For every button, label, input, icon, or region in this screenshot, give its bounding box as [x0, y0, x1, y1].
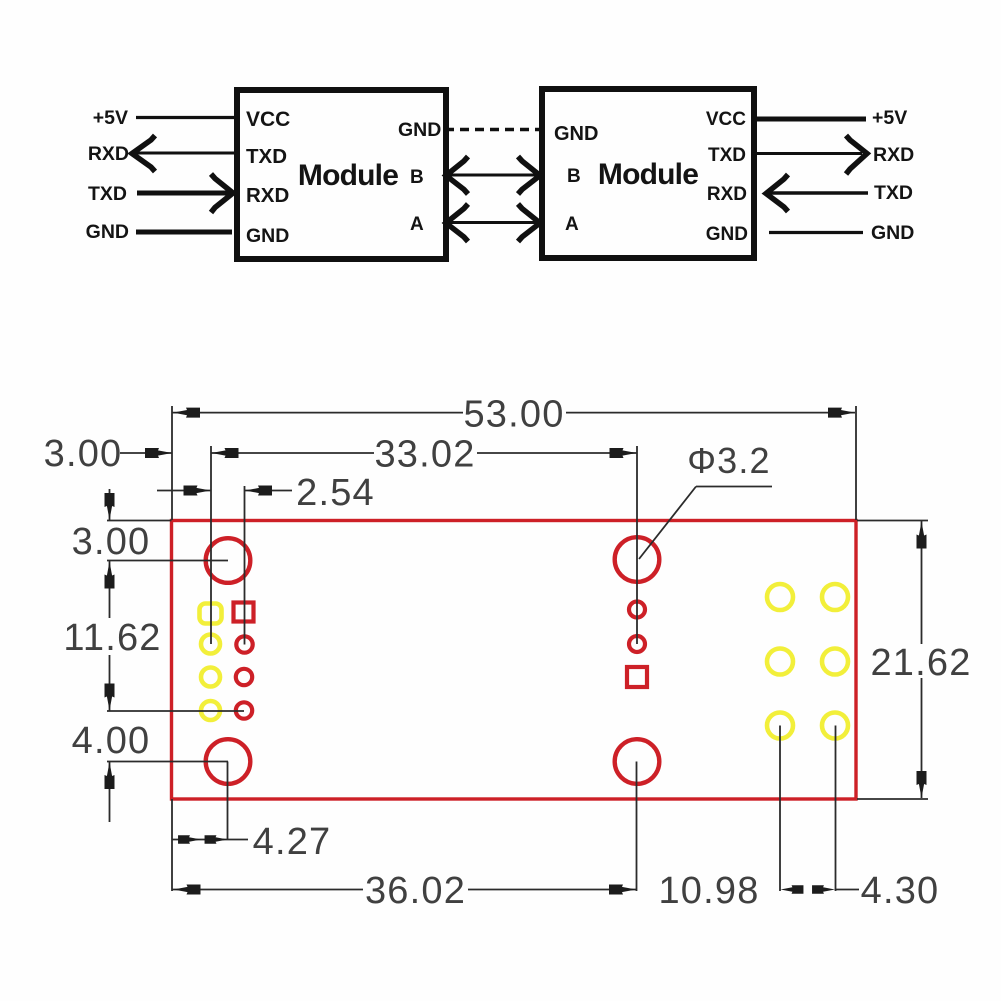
dimension texts — [44, 394, 972, 913]
svg-text:VCC: VCC — [246, 108, 290, 131]
33.02 arrows — [212, 448, 239, 458]
4.00 arrow (up) — [105, 762, 115, 789]
svg-text:GND: GND — [398, 119, 441, 141]
svg-text:GND: GND — [86, 221, 129, 243]
svg-text:36.02: 36.02 — [365, 870, 466, 912]
21.62 arrows — [917, 522, 927, 549]
53.00 arrows — [173, 408, 200, 418]
mounting hole bottom-left — [206, 739, 251, 784]
dim line 4.27 — [172, 839, 248, 841]
U2 pin labels — [554, 109, 748, 245]
svg-text:4.00: 4.00 — [72, 720, 151, 762]
svg-text:A: A — [410, 214, 424, 235]
dim line 3.00 / 33.02 — [120, 452, 172, 454]
wire U1 TXD to RXD (arrow left) — [133, 152, 237, 155]
left ref line hole row2 — [107, 761, 228, 763]
yellow pad square P1 — [200, 604, 222, 624]
svg-text:TXD: TXD — [88, 183, 127, 205]
svg-text:GND: GND — [871, 222, 914, 244]
svg-text:Φ3.2: Φ3.2 — [687, 440, 771, 481]
dim line 36.02 — [172, 889, 363, 891]
ext board right 21.62 — [857, 520, 928, 522]
svg-text:GND: GND — [706, 224, 748, 245]
2.54 arrows — [184, 486, 211, 496]
36.02 arrows — [174, 885, 201, 895]
3.00 vertical arrow (down) — [105, 493, 115, 520]
mounting hole top-left — [206, 538, 251, 583]
wire GND to U1 GND — [136, 230, 232, 235]
svg-text:RXD: RXD — [707, 184, 747, 205]
svg-text:2.54: 2.54 — [296, 472, 375, 514]
vdim 11.62 shafts — [109, 561, 111, 618]
U1 pin labels — [246, 108, 441, 247]
svg-text:53.00: 53.00 — [463, 394, 564, 436]
wire TXD to U1 RXD (arrow right) — [137, 191, 230, 196]
wire U2 GND to GND — [769, 231, 863, 234]
svg-text:33.02: 33.02 — [374, 434, 475, 476]
dim 4.30 tail — [836, 889, 860, 891]
mounting hole top-mid — [615, 537, 660, 582]
wire U2 TXD to RXD (arrow right) — [756, 152, 862, 155]
PCB outline (red) — [172, 521, 857, 800]
ext line bottom-mid hole center — [636, 762, 638, 892]
yellow holes right 3x2 — [767, 584, 793, 610]
svg-text:4.27: 4.27 — [253, 821, 332, 863]
ext line board left bottom — [171, 799, 173, 891]
svg-text:11.62: 11.62 — [63, 617, 161, 659]
svg-text:A: A — [565, 214, 579, 235]
red pad square — [234, 603, 254, 622]
svg-text:RXD: RXD — [873, 144, 914, 166]
red pads middle column — [629, 602, 645, 618]
svg-text:+5V: +5V — [93, 107, 128, 129]
dashed GND net between modules — [445, 128, 541, 131]
svg-text:B: B — [410, 167, 424, 188]
svg-text:TXD: TXD — [874, 182, 913, 204]
3.00 arrow (points right at board edge) — [145, 448, 172, 458]
wire TXD to U2 RXD (arrow left) — [768, 191, 868, 194]
svg-text:+5V: +5V — [872, 107, 907, 129]
yellow pads column — [201, 635, 220, 654]
net A double arrow — [446, 221, 540, 224]
svg-text:3.00: 3.00 — [72, 521, 151, 563]
dimension arrows — [105, 408, 927, 895]
svg-text:10.98: 10.98 — [658, 870, 759, 912]
svg-text:4.30: 4.30 — [861, 870, 940, 912]
ext line hole mid col — [636, 446, 638, 644]
red pads column — [236, 636, 252, 652]
11.62 arrows — [105, 562, 115, 589]
dim line 53.00 — [172, 412, 463, 414]
ext line board right top — [855, 406, 857, 520]
svg-text:RXD: RXD — [246, 184, 289, 207]
red pad square middle — [627, 667, 647, 687]
svg-text:RXD: RXD — [88, 143, 129, 165]
ext line board left top — [171, 406, 173, 520]
ext line hole col2 — [244, 486, 246, 645]
svg-text:GND: GND — [554, 123, 598, 145]
vdim 21.62 shafts — [921, 521, 923, 644]
module box U1 (left) — [237, 90, 446, 259]
svg-text:GND: GND — [246, 225, 289, 247]
mounting hole bottom-mid — [615, 739, 660, 784]
external labels right — [871, 107, 914, 244]
wire +5V to U1 VCC — [136, 116, 237, 119]
svg-text:TXD: TXD — [708, 145, 746, 166]
svg-text:Module: Module — [598, 158, 698, 191]
4.30 arrows (outward) — [781, 885, 804, 894]
external labels left — [86, 107, 129, 243]
ext line bottom-left hole center — [227, 762, 229, 840]
left ref line pad row4 — [107, 710, 244, 712]
vdim 3.00 shaft — [109, 489, 111, 521]
svg-text:B: B — [567, 166, 581, 187]
svg-text:Module: Module — [298, 159, 398, 192]
4.27 arrows (both right) — [178, 835, 201, 844]
net B double arrow — [446, 174, 540, 177]
wire U2 VCC to +5V — [754, 117, 866, 122]
svg-text:VCC: VCC — [706, 109, 746, 130]
left ref line hole row1 — [107, 560, 228, 562]
module box U2 (right) — [542, 89, 754, 258]
left ref line board top — [107, 520, 172, 522]
leader phi3.2 — [696, 486, 772, 488]
ext line hole col1 — [210, 446, 212, 644]
svg-text:TXD: TXD — [246, 145, 287, 168]
vdim 4.00 shaft — [109, 762, 111, 823]
ext lines yellow holes bottom — [779, 726, 781, 892]
dim line 2.54 — [157, 490, 211, 492]
svg-text:3.00: 3.00 — [44, 433, 123, 475]
svg-text:21.62: 21.62 — [870, 642, 971, 684]
